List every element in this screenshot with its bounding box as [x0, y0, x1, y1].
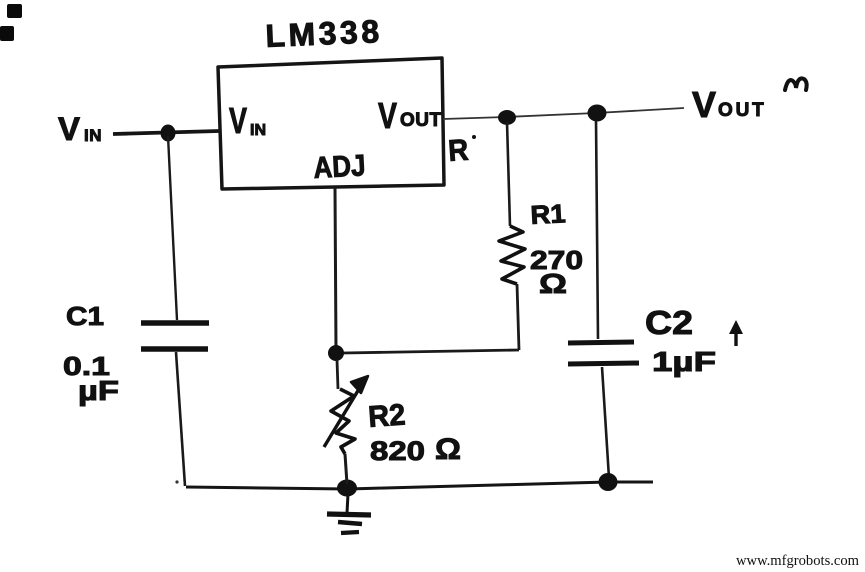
svg-text:Ω: Ω: [435, 433, 461, 466]
corner mark top-left 2: [0, 26, 14, 41]
capacitor C1: [141, 320, 209, 325]
wire C2 top from VOUT node: [596, 120, 598, 339]
svg-text:OUT: OUT: [718, 100, 767, 121]
svg-text:V: V: [378, 95, 397, 136]
wire VOUT node to R1: [507, 122, 510, 226]
junction dot input node: [161, 125, 176, 142]
wire input VIN to U1: [113, 131, 219, 134]
svg-text:820: 820: [370, 436, 425, 466]
wire ADJ node to R2: [337, 360, 338, 389]
wire input node down to C1: [168, 136, 177, 320]
wire VOUT from U1 to output: [443, 108, 684, 119]
junction dot ground node: [337, 480, 357, 497]
svg-text:ADJ: ADJ: [313, 149, 367, 185]
wire R1 bottom: [517, 284, 519, 350]
IC U1 LM338 box: [218, 58, 444, 189]
svg-text:1µF: 1µF: [652, 346, 716, 377]
svg-text:V: V: [58, 111, 81, 147]
svg-text:µF: µF: [78, 375, 119, 406]
wire C2 bottom to ground rail: [602, 367, 609, 478]
arrow mark near C2: [734, 330, 737, 346]
junction dot ADJ node: [328, 345, 344, 361]
potentiometer R2 arrow: [324, 384, 362, 447]
svg-text:V: V: [692, 84, 716, 125]
potentiometer R2 zigzag: [331, 389, 355, 454]
junction dot C2 ground: [599, 473, 618, 491]
svg-text:R1: R1: [530, 198, 567, 230]
tick at rail start: [175, 480, 178, 483]
svg-text:Ω: Ω: [539, 268, 567, 299]
svg-text:LM338: LM338: [265, 13, 384, 54]
wire ADJ pin down: [335, 188, 336, 350]
svg-text:IN: IN: [84, 126, 102, 145]
wire ground rail: [186, 482, 653, 489]
svg-text:www.mfgrobots.com: www.mfgrobots.com: [736, 553, 860, 569]
corner mark top-left 1: [7, 4, 22, 18]
wire R2 bottom to ground: [345, 454, 347, 484]
wire C1 bottom to ground rail: [176, 352, 185, 486]
junction dot VOUT node 2: [588, 105, 607, 122]
svg-text:C1: C1: [66, 301, 104, 331]
resistor R1 zigzag: [499, 226, 525, 284]
svg-text:V: V: [229, 100, 247, 141]
svg-text:OUT: OUT: [400, 110, 442, 131]
junction dot VOUT node 1: [498, 110, 516, 125]
capacitor C2: [568, 342, 634, 343]
svg-text:R2: R2: [367, 398, 406, 434]
svg-text:R: R: [447, 134, 470, 168]
svg-text:C2: C2: [645, 304, 693, 341]
wire R1 bottom to ADJ node: [343, 350, 519, 353]
svg-text:IN: IN: [250, 122, 266, 139]
ground symbol: [347, 494, 348, 513]
squiggle mark near VOUT: [785, 78, 807, 90]
